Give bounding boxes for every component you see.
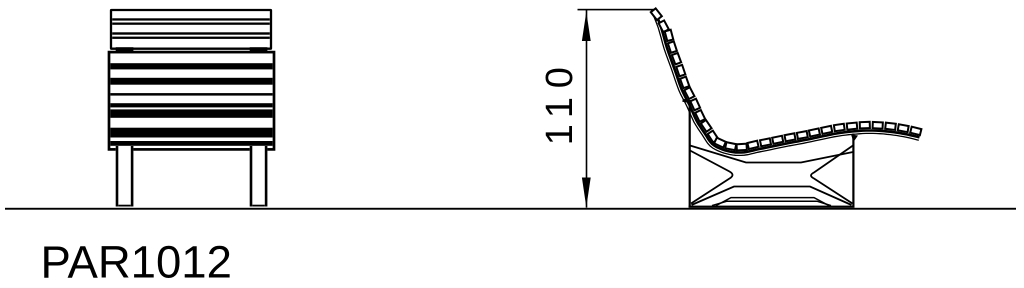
back post right in junction gap [250,47,268,53]
backrest slat gap line 1a [112,18,270,20]
lounger slat 20 [797,131,808,139]
lounger slat 21 [809,128,820,136]
base upper groove line [690,146,853,163]
bench front view: backrest box [111,10,271,49]
dimension line 110 vertical [586,10,588,208]
base left chevron recess [690,151,733,204]
lounger slat 10 [695,110,705,122]
leg left [116,146,134,207]
lounger slat 3 [665,30,674,41]
lounger slat 4 [668,41,677,52]
dimension arrow bottom [582,178,591,208]
lounger slat 19 [785,133,796,141]
base lower groove line [692,187,852,206]
svg-text:110: 110 [539,58,581,145]
lounger slat 15 [737,144,747,151]
lounger slat 27 [885,123,896,130]
lounger slat 9 [690,99,700,111]
lounger slat 2 [659,20,669,32]
lounger slat 22 [821,126,832,134]
lounger base left edge [689,100,691,208]
lounger slat 18 [772,136,783,144]
tick where curve meets base left edge [682,99,692,104]
lounger slat 6 [676,65,685,76]
back post left in junction gap [116,47,134,53]
svg-text:PAR1012: PAR1012 [41,237,232,288]
leg right [250,146,268,207]
lounger slat 26 [873,122,883,129]
seat slat gap band 3 [110,93,272,96]
lounger slat 23 [834,124,845,132]
lounger base right edge [852,134,854,208]
bench front view: seat box outline [109,52,274,149]
lounger slat 5 [672,53,681,65]
base right chevron recess [811,146,853,204]
backrest slat gap line 1b [112,23,270,25]
backrest slat gap line 2a [112,32,270,34]
seat slat gap band 7 [110,141,272,146]
seat slat gap band 4 [110,103,272,107]
lounger slat 1 [651,8,662,20]
lounger slat 28 [898,124,909,132]
seat slat gap band 1 [110,63,272,69]
lounger slats along curve [651,8,922,150]
ground line [5,208,1016,210]
seat tube main curve [654,9,920,153]
lounger base bottom edge [689,206,855,208]
base foot recess lower line [712,201,831,205]
seat slat gap band 6 [110,128,272,138]
seat slat gap band 2 [110,78,272,85]
seat slat gap band 5 [110,109,272,117]
dimension arrow top [582,12,591,41]
base foot recess upper line [716,198,829,206]
lounger slat 7 [680,77,689,89]
tick where curve meets base right edge [851,135,858,143]
lounger slat 11 [701,120,712,132]
lounger slat 8 [684,87,694,99]
lounger slat 16 [747,141,758,149]
backrest slat gap line 2b [112,37,270,39]
lounger slat 13 [714,138,726,148]
lounger slat 17 [760,138,771,146]
lounger slat 12 [708,131,719,143]
dimension extension line top [578,9,655,11]
lounger slat 24 [847,123,858,130]
lounger slat 29 [910,127,921,135]
seat tube lower offset line [651,10,919,155]
lounger slat 25 [860,122,870,129]
lounger slat 14 [725,142,736,150]
